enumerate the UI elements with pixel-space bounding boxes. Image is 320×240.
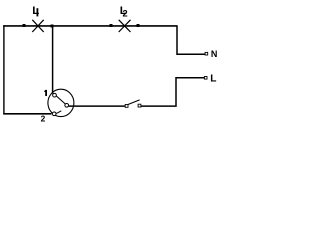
node dot left of lamp L2 [109,24,112,27]
lamp L1 (cross symbol) [32,20,43,32]
node dot right of lamp L2 [137,24,140,27]
wire: bottom left to selector terminal 2 [3,113,51,115]
wire: drop from junction to selector terminal 1 [52,26,54,94]
wire: switch to L riser [141,78,205,106]
lamp L2 (cross symbol) [119,20,131,32]
node dot left of lamp L1 [23,24,26,27]
label 1 [44,90,47,96]
wire: left vertical [3,25,5,114]
selector contact 1 [53,93,57,97]
selector common contact [65,103,69,107]
selector contact 2 [52,112,56,116]
selector switch body circle [48,89,74,116]
wire: right drop to N [177,26,205,54]
svg-text:N: N [211,49,218,59]
switch S1 left contact [125,105,128,108]
switch S1 lever [128,100,140,105]
svg-text:2: 2 [123,8,128,18]
switch S1 right contact [138,104,141,107]
wire: top bus L1-L2 [3,25,177,27]
svg-text:L: L [210,73,216,84]
svg-text:2: 2 [41,114,46,124]
node junction right of lamp L1 [50,24,53,27]
terminal L square [204,77,207,80]
terminal N square [205,52,208,55]
selector lever to position 1 [56,96,65,104]
wire: selector common to switch [69,105,126,107]
selector alternate position dash [57,111,62,114]
